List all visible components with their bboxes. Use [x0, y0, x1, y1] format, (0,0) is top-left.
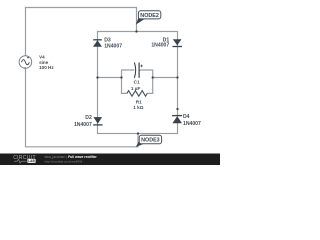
- svg-text:1N4007: 1N4007: [104, 44, 122, 50]
- svg-text:http://circuitlab.com/cme8435: http://circuitlab.com/cme8435: [45, 160, 83, 164]
- svg-text:1N4007: 1N4007: [151, 43, 169, 49]
- svg-text:1 µF: 1 µF: [131, 86, 141, 91]
- svg-text:1 kΩ: 1 kΩ: [133, 105, 144, 110]
- svg-text:D2: D2: [85, 115, 92, 121]
- svg-text:C1: C1: [134, 80, 140, 85]
- svg-text:1N4007: 1N4007: [74, 122, 92, 128]
- svg-text:D4: D4: [183, 114, 190, 120]
- svg-text:1N4007: 1N4007: [183, 121, 201, 127]
- svg-text:100 Hz: 100 Hz: [39, 65, 54, 70]
- svg-text:V4: V4: [39, 55, 45, 60]
- svg-text:LAB: LAB: [28, 159, 35, 163]
- svg-text:NODE3: NODE3: [141, 138, 160, 144]
- svg-text:NODE2: NODE2: [140, 13, 159, 19]
